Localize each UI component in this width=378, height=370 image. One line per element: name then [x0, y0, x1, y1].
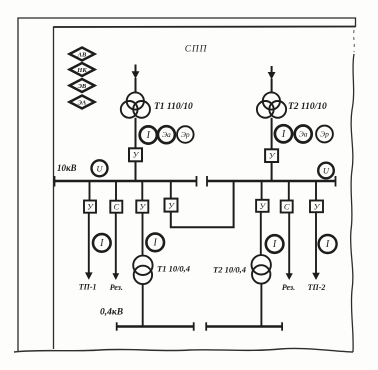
breaker У (T2 incomer) — [265, 149, 278, 181]
feeder ТП-2: meter I — [319, 235, 337, 253]
svg-text:ТП-2: ТП-2 — [308, 283, 326, 292]
svg-text:АВ: АВ — [77, 51, 87, 58]
legend diamond ЭВ — [70, 79, 95, 92]
voltmeter U (section 1) — [92, 160, 108, 176]
feeder ТП-2: switch У — [310, 201, 323, 213]
transformer Т2 10/0,4 — [252, 255, 271, 283]
svg-text:Т2 10/0,4: Т2 10/0,4 — [213, 265, 246, 275]
transformer T1 110/10 (three-winding) — [121, 92, 150, 117]
svg-text:10кВ: 10кВ — [57, 163, 77, 173]
svg-text:I: I — [272, 239, 277, 250]
feeder Т1 10/0,4: wire — [142, 213, 144, 256]
feeder Т2 10/0,4: wire — [260, 212, 262, 256]
svg-text:I: I — [146, 130, 151, 141]
feeder ТП-2: wire — [315, 181, 317, 201]
incoming line 1 with arrow — [132, 65, 140, 93]
feeder Рез (section 2): switch С — [281, 201, 293, 213]
svg-text:U: U — [96, 163, 103, 173]
meter Эа (T2 feeder) — [295, 126, 312, 143]
svg-text:Рез.: Рез. — [110, 283, 123, 292]
wire T1 to breaker — [135, 118, 137, 149]
svg-text:I: I — [153, 237, 158, 248]
feeder ТП-2: wire with arrow — [312, 212, 320, 280]
legend diamond ЭА — [70, 96, 95, 109]
svg-text:С: С — [284, 202, 290, 212]
transformer T2 110/10 (three-winding) — [257, 92, 286, 117]
bus 0,4кВ section 1 — [117, 322, 194, 330]
feeder Рез (section 2): wire with arrow — [286, 213, 293, 281]
meter Эа (T1 feeder) — [158, 126, 175, 143]
bus tie: switch У — [165, 199, 178, 212]
svg-text:ЭВ: ЭВ — [78, 83, 87, 90]
meter I (T2 feeder) — [275, 125, 292, 142]
transformer Т1 10/0,4 — [133, 256, 152, 284]
svg-text:0,4кВ: 0,4кВ — [100, 308, 123, 318]
voltmeter U (section 2) — [318, 163, 334, 179]
feeder Рез (section 1): wire — [115, 181, 117, 201]
svg-text:ЭА: ЭА — [78, 99, 87, 106]
meter I (T1 feeder) — [140, 126, 157, 143]
feeder Т1 10/0,4: meter I — [146, 234, 164, 252]
wire Т1 to 0,4 bus — [142, 284, 144, 326]
svg-text:U: U — [323, 166, 330, 176]
svg-text:ТП-1: ТП-1 — [79, 282, 97, 291]
svg-text:Эр: Эр — [181, 130, 190, 139]
feeder Т1 10/0,4: switch У — [136, 201, 148, 213]
wire T2 to breaker — [271, 118, 273, 150]
meter Эр (T1 feeder) — [177, 126, 194, 143]
svg-text:Эа: Эа — [299, 130, 308, 139]
incoming line 2 with arrow — [268, 66, 276, 93]
svg-text:Т1 110/10: Т1 110/10 — [154, 102, 193, 112]
feeder Т1 10/0,4: wire — [141, 181, 143, 201]
svg-text:НК: НК — [76, 67, 87, 74]
svg-text:Рез.: Рез. — [282, 283, 295, 292]
feeder Рез (section 2): wire — [288, 181, 290, 201]
legend diamond НК — [70, 63, 95, 76]
svg-text:С: С — [113, 202, 119, 212]
feeder Рез (section 1): wire with arrow — [112, 213, 119, 280]
bus 10кВ section 2 — [207, 176, 336, 187]
meter Эр (T2 feeder) — [316, 126, 333, 143]
bus tie: bridge wire — [171, 181, 234, 227]
bus 0,4кВ section 2 — [206, 322, 282, 330]
svg-text:Т1 10/0,4: Т1 10/0,4 — [157, 264, 190, 274]
feeder Рез (section 1): switch С — [110, 201, 122, 213]
bus tie: wire — [170, 181, 172, 199]
feeder ТП-1: switch У — [84, 201, 96, 213]
svg-text:Эр: Эр — [320, 130, 329, 139]
legend diamond АВ — [70, 48, 95, 61]
svg-text:Т2 110/10: Т2 110/10 — [288, 102, 327, 112]
feeder Т2 10/0,4: meter I — [266, 235, 284, 253]
svg-text:Эа: Эа — [162, 130, 171, 139]
svg-text:I: I — [281, 129, 286, 140]
svg-text:СПП: СПП — [185, 45, 208, 55]
feeder ТП-1: wire with arrow — [85, 213, 93, 280]
feeder Т2 10/0,4: switch У — [256, 200, 269, 212]
bus 10кВ section 1 — [55, 176, 197, 187]
feeder Т2 10/0,4: wire — [261, 181, 263, 200]
svg-text:I: I — [325, 239, 330, 250]
feeder ТП-1: wire — [89, 181, 91, 201]
svg-text:I: I — [99, 238, 104, 249]
wire Т2 to 0,4 bus — [260, 284, 262, 327]
feeder ТП-1: meter I — [93, 234, 111, 252]
breaker У (T1 incomer) — [129, 148, 142, 181]
